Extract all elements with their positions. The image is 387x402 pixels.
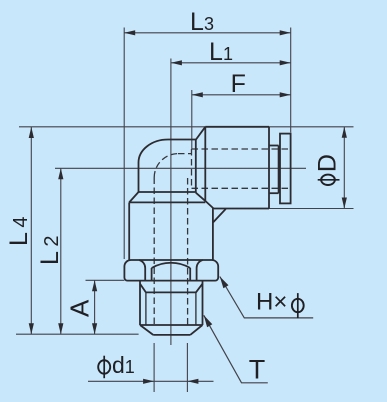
svg-text:T: T	[249, 355, 266, 385]
svg-text:A: A	[65, 299, 95, 317]
svg-text:F: F	[231, 70, 246, 98]
svg-text:L2: L2	[36, 231, 64, 265]
svg-text:H×: H×	[256, 289, 287, 316]
svg-text:D: D	[313, 154, 341, 172]
svg-text:L4: L4	[5, 212, 33, 246]
